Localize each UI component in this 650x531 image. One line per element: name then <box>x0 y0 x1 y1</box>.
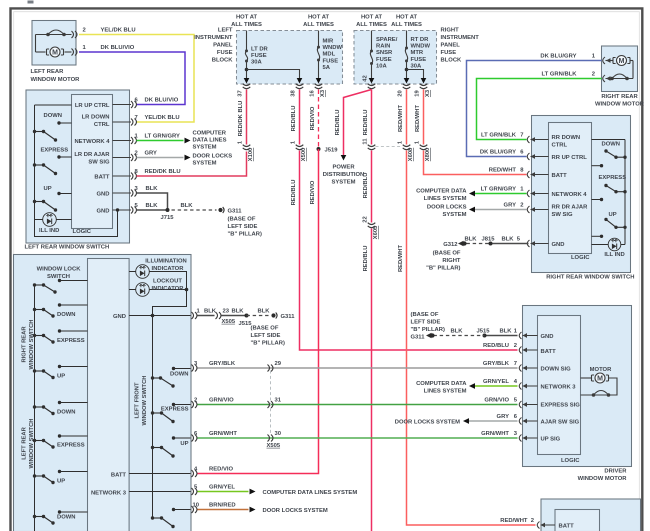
left rear window motor <box>32 21 77 66</box>
switch DOWN left front <box>151 367 191 388</box>
svg-text:HOT AT: HOT AT <box>361 15 383 21</box>
wire GRN/WHT up sig master to driver motor <box>194 431 518 438</box>
fuse MIR WNDW MDL FUSE 5A <box>316 31 343 84</box>
wire BLK dashed J515 to G311 master <box>247 309 271 316</box>
svg-text:DOWN: DOWN <box>57 410 76 416</box>
label hot at all times (spare/rain fuse) <box>356 15 387 29</box>
svg-text:M: M <box>597 375 603 382</box>
splice J519 <box>317 147 339 154</box>
svg-text:LEFT SIDE: LEFT SIDE <box>411 320 441 326</box>
svg-text:DOOR LOCKS SYSTEM: DOOR LOCKS SYSTEM <box>263 508 328 514</box>
svg-text:11: 11 <box>363 138 369 145</box>
wire BLK gnd pin3 left rear <box>135 186 168 210</box>
svg-text:RED/BLU: RED/BLU <box>363 246 369 272</box>
ground G312 base of right B pillar <box>426 241 467 272</box>
svg-text:NETWORK 3: NETWORK 3 <box>541 384 577 390</box>
svg-text:DOOR LOCKS: DOOR LOCKS <box>193 154 233 160</box>
reference computer data lines system (left rear) <box>193 131 227 151</box>
svg-text:30A: 30A <box>251 60 263 66</box>
svg-text:MIR: MIR <box>323 39 334 45</box>
window lock switch contacts <box>33 279 88 294</box>
svg-text:X500: X500 <box>301 148 307 162</box>
wire RED/BLU X605 down offpage <box>363 229 372 531</box>
switch UP left rear <box>33 186 72 212</box>
svg-text:DK BLU/GRY: DK BLU/GRY <box>540 54 576 60</box>
label left instrument panel fuse block <box>194 28 233 64</box>
wire RED/WHT fuse 20 down to X608 <box>398 90 407 145</box>
svg-text:RED/BLU: RED/BLU <box>483 343 509 349</box>
svg-text:INDICATOR: INDICATOR <box>152 266 185 272</box>
wire RED/WHT X608 down to passenger motor batt <box>398 151 536 526</box>
svg-text:X605: X605 <box>373 225 379 239</box>
svg-text:BLK: BLK <box>500 329 513 335</box>
svg-text:23: 23 <box>223 309 230 315</box>
svg-text:J519: J519 <box>325 148 339 154</box>
svg-text:GRY: GRY <box>504 203 517 209</box>
switch EXPRESS master row 2 <box>33 329 88 344</box>
svg-text:7: 7 <box>514 361 517 367</box>
switch EXPRESS left front <box>151 403 191 423</box>
reference door locks system (left rear) <box>193 154 233 167</box>
svg-text:LOGIC: LOGIC <box>73 229 92 235</box>
svg-text:NETWORK 4: NETWORK 4 <box>74 139 110 145</box>
switch DOWN left rear <box>33 113 72 142</box>
label left rear window switch <box>25 245 110 251</box>
svg-text:BLK: BLK <box>232 309 245 315</box>
connector X605 row pin 11 <box>363 138 403 150</box>
connector X505 dashed link <box>270 371 272 435</box>
svg-text:LINES SYSTEM: LINES SYSTEM <box>424 389 467 395</box>
svg-text:X608: X608 <box>408 147 414 161</box>
splice J815 <box>482 237 496 246</box>
svg-text:HOT AT: HOT AT <box>308 15 330 21</box>
label window lock switch <box>37 267 82 281</box>
svg-text:RED/BLU: RED/BLU <box>291 106 297 132</box>
svg-text:DOWN: DOWN <box>57 312 76 318</box>
wire BLK dashed J815 to G312 <box>464 237 490 244</box>
vertical label right rear window switch <box>22 320 36 370</box>
batt wire inside master <box>111 472 191 478</box>
right instrument panel fuse block <box>354 31 437 85</box>
svg-text:DRIVER: DRIVER <box>604 469 627 475</box>
svg-text:DOWN SIG: DOWN SIG <box>541 366 572 372</box>
svg-text:SWITCH: SWITCH <box>47 274 70 280</box>
svg-text:COMPUTER DATA LINES SYSTEM: COMPUTER DATA LINES SYSTEM <box>263 490 358 496</box>
svg-text:BLK: BLK <box>464 237 477 243</box>
svg-text:42: 42 <box>363 75 369 81</box>
svg-text:RIGHT REAR: RIGHT REAR <box>22 326 28 363</box>
left instrument panel fuse block <box>237 31 343 85</box>
svg-text:WNDW: WNDW <box>411 44 431 50</box>
label right rear window motor <box>595 94 645 108</box>
svg-text:X3: X3 <box>425 89 431 97</box>
svg-text:WINDOW MOTOR: WINDOW MOTOR <box>31 77 81 83</box>
switch DOWN master row 4 <box>33 401 88 416</box>
svg-text:HOT AT: HOT AT <box>236 15 258 21</box>
fuse RT DR WNDW MTR FUSE 30A <box>404 31 431 84</box>
svg-text:BATT: BATT <box>541 349 557 355</box>
svg-text:LT GRN/GRY: LT GRN/GRY <box>481 187 516 193</box>
svg-text:PANEL: PANEL <box>441 43 461 49</box>
svg-text:LEFT FRONT: LEFT FRONT <box>135 382 141 419</box>
wire LT GRN/BLK motor pin2 to switch pin7 <box>477 72 602 140</box>
wire RED/BLU pin42 to power distribution arrow <box>335 90 372 161</box>
illumination indicator master <box>129 265 186 290</box>
connector pin 31 <box>268 398 282 409</box>
svg-text:INSTRUMENT: INSTRUMENT <box>194 35 233 41</box>
svg-text:UP: UP <box>44 186 52 192</box>
wire GRN/VIO express sig master to driver motor <box>194 398 518 405</box>
svg-text:UP: UP <box>609 212 617 218</box>
reference door locks system (right rear) <box>427 205 467 219</box>
ground G311 base of left B pillar <box>218 207 262 238</box>
wire GRY/BLK down sig master to driver motor <box>194 361 518 368</box>
connector pin 29 <box>268 361 282 372</box>
svg-text:UP SIG: UP SIG <box>541 436 561 442</box>
reference power distribution system <box>323 165 365 186</box>
svg-text:WINDOW SWITCH: WINDOW SWITCH <box>142 376 148 426</box>
connector X605 pin 22 <box>363 216 380 239</box>
svg-text:UP: UP <box>57 479 65 485</box>
switch EXPRESS left rear <box>33 148 72 176</box>
svg-text:MDL: MDL <box>323 52 336 58</box>
svg-text:LR DOWN: LR DOWN <box>82 115 110 121</box>
ground G311 master base of left B pillar <box>251 313 296 347</box>
svg-text:RR DR AJAR: RR DR AJAR <box>552 205 589 211</box>
svg-text:INDICATOR: INDICATOR <box>152 286 185 292</box>
svg-text:7: 7 <box>520 133 523 139</box>
svg-text:HOT AT: HOT AT <box>396 15 418 21</box>
ground G311 driver base of left B pillar <box>411 312 445 341</box>
svg-text:LEFT: LEFT <box>218 28 233 34</box>
svg-text:X800: X800 <box>425 148 431 162</box>
svg-text:YEL/DK BLU: YEL/DK BLU <box>101 28 136 34</box>
left rear window switch <box>26 90 130 243</box>
wire LT GRN/GRY network4 right rear to computer data lines <box>469 187 527 197</box>
svg-text:COMPUTER DATA: COMPUTER DATA <box>416 189 467 195</box>
connector X505 pin23 <box>216 309 245 325</box>
svg-text:GND: GND <box>113 314 126 320</box>
label right instrument panel fuse block <box>441 28 480 64</box>
svg-text:COMPUTER: COMPUTER <box>193 131 227 137</box>
network3 wire inside master <box>91 490 191 496</box>
svg-text:EXPRESS: EXPRESS <box>41 148 69 154</box>
wire BLK gnd right rear to J815 <box>491 237 529 244</box>
svg-text:GRN/VIO: GRN/VIO <box>484 398 509 404</box>
driver motor logic pin labels <box>541 334 581 443</box>
driver motor pin connectors <box>519 332 537 442</box>
master window switch (driver door switch assembly) <box>14 255 192 531</box>
svg-text:RED/BLU: RED/BLU <box>335 110 341 136</box>
svg-text:ALL TIMES: ALL TIMES <box>231 22 262 28</box>
svg-text:RED/WHT: RED/WHT <box>398 245 404 273</box>
svg-text:ILL IND: ILL IND <box>39 228 59 234</box>
passenger motor batt pin <box>537 522 574 530</box>
svg-text:FUSE: FUSE <box>217 50 233 56</box>
svg-text:M: M <box>52 49 58 56</box>
svg-text:GND: GND <box>97 208 110 214</box>
left rear switch pin connectors <box>113 101 137 214</box>
svg-text:RR UP CTRL: RR UP CTRL <box>552 155 588 161</box>
label hot at all times (rt dr wndw fuse) <box>391 15 422 29</box>
svg-text:5A: 5A <box>323 65 331 71</box>
svg-text:BATT: BATT <box>552 173 568 179</box>
wire RED/WHT fuse 19 down to X800 <box>415 90 424 145</box>
svg-text:(BASE OF: (BASE OF <box>228 217 256 223</box>
svg-text:DOOR LOCKS SYSTEM: DOOR LOCKS SYSTEM <box>395 420 460 426</box>
svg-text:DISTRIBUTION: DISTRIBUTION <box>323 172 365 178</box>
svg-text:"B" PILLAR): "B" PILLAR) <box>426 266 460 272</box>
svg-text:LOCKOUT: LOCKOUT <box>153 279 182 285</box>
svg-text:RED/BLU: RED/BLU <box>363 173 369 199</box>
svg-text:RED/VIO: RED/VIO <box>310 106 316 130</box>
svg-text:BATT: BATT <box>111 472 127 478</box>
svg-text:MOTOR: MOTOR <box>590 367 612 373</box>
wire GRN/YEL network3 driver to computer data lines <box>469 379 518 389</box>
svg-text:ILL IND: ILL IND <box>604 252 624 258</box>
svg-text:19: 19 <box>415 90 421 97</box>
svg-text:DOOR LOCKS: DOOR LOCKS <box>427 205 467 211</box>
svg-text:RED/WHT: RED/WHT <box>415 105 421 133</box>
wire RED/BLU pin42 down to X605 <box>363 90 372 145</box>
wire BLK dashed G311 to J515 driver <box>434 329 485 336</box>
svg-text:GRN/VIO: GRN/VIO <box>209 398 234 404</box>
svg-text:FUSE: FUSE <box>441 50 457 56</box>
label right rear window switch <box>546 275 634 281</box>
svg-text:GRY/BLK: GRY/BLK <box>209 361 236 367</box>
wire RED/VIO dashed fuse 16 to J519 <box>310 90 319 147</box>
svg-text:J515: J515 <box>477 329 491 335</box>
svg-text:X100: X100 <box>248 148 254 162</box>
svg-text:RED/DK BLU: RED/DK BLU <box>238 101 244 137</box>
svg-text:RT DR: RT DR <box>411 37 430 43</box>
svg-text:BLK: BLK <box>181 203 194 209</box>
label driver window motor <box>578 469 628 483</box>
splice J715 <box>161 208 175 221</box>
svg-text:INSTRUMENT: INSTRUMENT <box>441 35 480 41</box>
svg-text:(BASE OF: (BASE OF <box>411 312 439 318</box>
right rear window switch <box>532 116 631 273</box>
svg-text:LR UP CTRL: LR UP CTRL <box>75 103 110 109</box>
svg-text:ILLUMINATION: ILLUMINATION <box>145 259 186 265</box>
lockout indicator master <box>129 283 188 316</box>
svg-text:DOWN: DOWN <box>602 142 621 148</box>
svg-text:X505: X505 <box>222 319 236 325</box>
right rear switch internal rail <box>592 140 626 245</box>
svg-text:J815: J815 <box>482 237 496 243</box>
svg-text:BLK: BLK <box>451 329 464 335</box>
svg-text:YEL/DK BLU: YEL/DK BLU <box>145 115 180 121</box>
svg-text:SPARE/: SPARE/ <box>376 37 398 43</box>
svg-text:38: 38 <box>291 90 297 97</box>
svg-text:SW SIG: SW SIG <box>552 212 574 218</box>
master rail to left front switches <box>152 316 154 519</box>
fuse LT DR FUSE 30A <box>244 31 303 84</box>
svg-text:BLK: BLK <box>146 186 159 192</box>
svg-text:22: 22 <box>363 216 369 222</box>
switch EXPRESS right rear <box>592 175 627 201</box>
svg-text:LINES SYSTEM: LINES SYSTEM <box>424 196 467 202</box>
master switch left rail <box>34 284 36 531</box>
svg-text:MTR: MTR <box>411 50 424 56</box>
svg-text:BRN/RED: BRN/RED <box>209 503 236 509</box>
svg-text:COMPUTER DATA: COMPUTER DATA <box>416 381 467 387</box>
svg-text:LT GRN/GRY: LT GRN/GRY <box>145 134 180 140</box>
svg-text:BLOCK: BLOCK <box>212 58 234 64</box>
svg-text:DK BLU/GRY: DK BLU/GRY <box>480 150 516 156</box>
svg-text:SYSTEM: SYSTEM <box>331 180 355 186</box>
svg-text:GND: GND <box>97 191 110 197</box>
svg-text:EXPRESS: EXPRESS <box>57 338 85 344</box>
svg-text:37: 37 <box>238 90 244 96</box>
svg-text:(BASE OF: (BASE OF <box>251 326 279 332</box>
reference door locks system (master) <box>263 508 328 514</box>
wire DK BLU/GRY motor pin1 to switch pin6 <box>467 54 602 157</box>
wire RED/VIO J519 down to master switch batt <box>198 149 319 474</box>
fuse block connector pins 42 20 19 <box>363 75 432 97</box>
driver batt pin2 label <box>0 0 2 2</box>
wire DK BLU/VIO motor pin1 to switch pin6 <box>79 45 185 105</box>
svg-text:G312: G312 <box>443 242 458 248</box>
wire RED/DK BLU batt feed to left rear switch <box>135 152 247 177</box>
svg-text:SYSTEM: SYSTEM <box>193 161 217 167</box>
svg-text:RED/BLU: RED/BLU <box>291 180 297 206</box>
label LOGIC left rear switch <box>73 229 92 235</box>
svg-text:AJAR SW SIG: AJAR SW SIG <box>541 419 580 425</box>
driver motor pin labels BLK GND <box>514 329 518 335</box>
svg-text:G311: G311 <box>281 314 296 320</box>
reference computer data lines system (driver) <box>416 381 467 395</box>
svg-text:FUSE: FUSE <box>411 57 427 63</box>
svg-text:SNSR: SNSR <box>376 50 393 56</box>
svg-text:LEFT REAR: LEFT REAR <box>22 426 28 459</box>
svg-text:"B" PILLAR): "B" PILLAR) <box>251 341 285 347</box>
reference computer data lines system (master) <box>263 490 358 496</box>
svg-text:BLK: BLK <box>501 237 514 243</box>
wire BLK X505 to J515 <box>222 315 247 317</box>
svg-text:10: 10 <box>193 503 200 509</box>
svg-text:RED/WHT: RED/WHT <box>489 168 517 174</box>
svg-text:BLK: BLK <box>146 203 159 209</box>
svg-text:LT GRN/BLK: LT GRN/BLK <box>542 72 578 78</box>
svg-text:GRN/WHT: GRN/WHT <box>209 431 237 437</box>
svg-text:RED/BLU: RED/BLU <box>363 110 369 136</box>
wire GRY ajar sw sig to door locks <box>135 151 191 161</box>
switch UP master row 6 <box>33 470 88 485</box>
splice J515 (driver) <box>477 329 491 338</box>
svg-text:SW SIG: SW SIG <box>88 159 110 165</box>
svg-text:10A: 10A <box>376 63 388 69</box>
svg-text:RAIN: RAIN <box>376 44 390 50</box>
svg-text:EXPRESS SIG: EXPRESS SIG <box>541 402 581 408</box>
svg-text:RED/WHT: RED/WHT <box>398 105 404 133</box>
svg-text:DATA LINES: DATA LINES <box>193 138 227 144</box>
svg-text:EXPRESS: EXPRESS <box>161 407 189 413</box>
svg-text:GRY: GRY <box>145 151 158 157</box>
connector X608 <box>398 140 415 161</box>
switch DOWN master row 1 <box>33 303 88 318</box>
svg-text:SYSTEM: SYSTEM <box>442 212 466 218</box>
svg-text:J715: J715 <box>161 215 175 221</box>
svg-text:RED/VIO: RED/VIO <box>310 180 316 204</box>
svg-text:SYSTEM: SYSTEM <box>193 145 217 151</box>
svg-text:LEFT SIDE: LEFT SIDE <box>251 333 281 339</box>
svg-text:RIGHT: RIGHT <box>441 28 460 34</box>
passenger window motor <box>541 499 641 531</box>
svg-text:RIGHT REAR: RIGHT REAR <box>601 94 638 100</box>
driver window motor <box>523 306 632 467</box>
left rear switch logic pin labels <box>74 103 110 215</box>
svg-text:30A: 30A <box>411 63 423 69</box>
wire LT GRN/GRY network4 to computer data lines <box>135 134 191 144</box>
svg-text:PANEL: PANEL <box>213 43 233 49</box>
svg-text:LR DR AJAR: LR DR AJAR <box>74 152 110 158</box>
master switch pin connectors <box>192 312 198 513</box>
svg-text:GND: GND <box>541 334 554 340</box>
switch EXPRESS master row 5 <box>33 434 88 448</box>
svg-text:DOWN: DOWN <box>57 515 76 521</box>
svg-text:RED/WHT: RED/WHT <box>500 518 528 524</box>
label LOGIC right rear switch <box>571 255 590 261</box>
switch lock contact left front <box>151 508 191 528</box>
svg-text:GRY/BLK: GRY/BLK <box>483 361 510 367</box>
svg-text:31: 31 <box>275 398 282 404</box>
switch DOWN right rear <box>592 142 627 168</box>
svg-text:LT DR: LT DR <box>251 47 269 53</box>
splice J515 (master) <box>239 314 253 328</box>
svg-text:G311: G311 <box>411 335 426 341</box>
motor symbol driver <box>581 367 618 397</box>
svg-text:G311: G311 <box>228 209 243 215</box>
svg-text:DOWN: DOWN <box>44 113 63 119</box>
svg-text:FUSE: FUSE <box>376 57 392 63</box>
vertical label left rear window switch <box>22 419 36 469</box>
svg-text:BLOCK: BLOCK <box>441 58 463 64</box>
wire RED/BLU down to driver window motor batt <box>291 151 518 351</box>
svg-text:LEFT SIDE: LEFT SIDE <box>228 224 258 230</box>
svg-text:POWER: POWER <box>332 165 355 171</box>
reference computer data lines system (right rear) <box>416 189 467 203</box>
wire RED/BLU X605 pin11 to pin22 <box>363 151 372 223</box>
svg-text:GRN/WHT: GRN/WHT <box>481 431 509 437</box>
svg-text:LOGIC: LOGIC <box>561 458 580 464</box>
svg-text:WINDOW LOCK: WINDOW LOCK <box>37 267 82 273</box>
connector X100 <box>238 140 255 161</box>
svg-text:ALL TIMES: ALL TIMES <box>356 22 387 28</box>
svg-text:WNDW: WNDW <box>323 45 343 51</box>
svg-text:UP: UP <box>180 441 188 447</box>
reference door locks system (driver) <box>395 420 460 426</box>
svg-text:RED/VIO: RED/VIO <box>209 467 233 473</box>
wire RED/BLU fuse 38 down to X500 <box>291 90 300 145</box>
svg-text:WINDOW MOTOR: WINDOW MOTOR <box>595 102 645 108</box>
svg-text:NETWORK 3: NETWORK 3 <box>91 490 127 496</box>
wire BLK gnd pin5 left rear <box>135 203 168 210</box>
svg-text:29: 29 <box>275 361 282 367</box>
illumination indicator ILL IND right rear <box>592 238 626 258</box>
svg-text:EXPRESS: EXPRESS <box>57 443 85 449</box>
svg-text:UP: UP <box>57 374 65 380</box>
svg-text:LEFT REAR: LEFT REAR <box>31 69 65 75</box>
label hot at all times (mir wndw fuse) <box>303 15 334 29</box>
wire BLK gnd master pin1 to X505 <box>197 309 217 316</box>
svg-text:30: 30 <box>275 431 282 437</box>
svg-text:GND: GND <box>552 242 565 248</box>
svg-text:LOGIC: LOGIC <box>571 255 590 261</box>
svg-text:GRY: GRY <box>497 414 510 420</box>
svg-text:"B" PILLAR): "B" PILLAR) <box>228 232 262 238</box>
svg-text:EXPRESS: EXPRESS <box>599 175 627 181</box>
